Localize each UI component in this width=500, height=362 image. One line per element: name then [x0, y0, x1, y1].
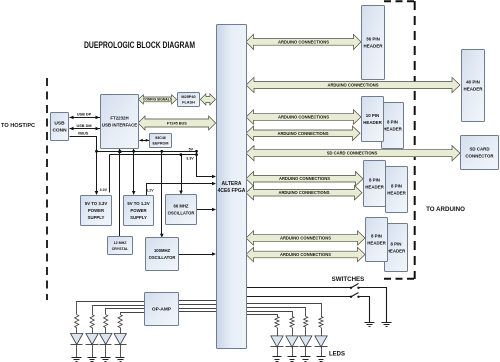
svg-text:USB INTERFACE: USB INTERFACE	[102, 123, 137, 128]
svg-text:66 MHZ: 66 MHZ	[174, 204, 189, 209]
svg-text:HEADER: HEADER	[387, 249, 406, 254]
svg-text:TO HOST/PC: TO HOST/PC	[1, 123, 35, 129]
svg-text:VBUS: VBUS	[78, 131, 89, 135]
svg-text:POWER: POWER	[130, 208, 147, 213]
svg-text:8 PIN: 8 PIN	[391, 184, 402, 189]
svg-text:4CE6 FPGA: 4CE6 FPGA	[218, 188, 246, 194]
svg-text:8 PIN: 8 PIN	[391, 242, 402, 247]
svg-text:OSCILLATOR: OSCILLATOR	[168, 211, 195, 216]
svg-text:HEADER: HEADER	[387, 191, 406, 196]
svg-text:5V: 5V	[189, 148, 194, 152]
svg-text:3.3V: 3.3V	[100, 188, 108, 192]
svg-text:ARDUINO CONNECTIONS: ARDUINO CONNECTIONS	[278, 39, 329, 44]
svg-text:100MHZ: 100MHZ	[154, 248, 170, 253]
svg-text:EEPROM: EEPROM	[153, 142, 169, 146]
svg-text:DUEPROLOGIC BLOCK DIAGRAM: DUEPROLOGIC BLOCK DIAGRAM	[84, 40, 195, 50]
svg-text:OSCILLATOR: OSCILLATOR	[149, 255, 176, 260]
svg-text:HEADER: HEADER	[383, 127, 402, 132]
svg-text:SD CARD CONNECTIONS: SD CARD CONNECTIONS	[327, 151, 378, 156]
svg-text:93C46: 93C46	[155, 136, 166, 140]
svg-text:SUPPLY: SUPPLY	[88, 215, 105, 220]
svg-text:SD CARD: SD CARD	[469, 147, 489, 152]
svg-text:10 PIN: 10 PIN	[366, 113, 379, 118]
svg-text:POWER: POWER	[88, 208, 105, 213]
svg-text:LEDS: LEDS	[329, 352, 345, 358]
svg-text:3.3V: 3.3V	[186, 157, 194, 161]
svg-text:8 PIN: 8 PIN	[371, 234, 382, 239]
svg-text:USB DP: USB DP	[77, 113, 92, 117]
svg-text:12 MHZ: 12 MHZ	[114, 241, 128, 245]
svg-text:SUPPLY: SUPPLY	[130, 215, 147, 220]
svg-text:USB DM: USB DM	[77, 124, 92, 128]
svg-text:8 PIN: 8 PIN	[369, 178, 380, 183]
svg-text:HEADER: HEADER	[363, 120, 382, 125]
svg-text:HEADER: HEADER	[367, 241, 386, 246]
svg-text:FT245 BUS: FT245 BUS	[167, 121, 188, 125]
svg-text:CONFIG SIGNALS: CONFIG SIGNALS	[143, 98, 173, 102]
svg-text:5V TO 1.2V: 5V TO 1.2V	[127, 201, 150, 206]
svg-text:36 PIN: 36 PIN	[366, 37, 380, 42]
svg-text:ARDUINO CONNECTIONS: ARDUINO CONNECTIONS	[278, 115, 329, 120]
svg-text:8 PIN: 8 PIN	[387, 120, 398, 125]
svg-text:ALTERA: ALTERA	[222, 181, 242, 187]
svg-text:USB: USB	[54, 121, 65, 127]
svg-text:FLASH: FLASH	[182, 101, 195, 105]
svg-text:ARDUINO CONNECTIONS: ARDUINO CONNECTIONS	[277, 131, 328, 136]
svg-text:40 PIN: 40 PIN	[466, 80, 480, 85]
svg-text:HEADER: HEADER	[363, 44, 383, 49]
svg-text:ARDUINO CONNECTIONS: ARDUINO CONNECTIONS	[279, 176, 330, 181]
svg-text:HEADER: HEADER	[365, 185, 384, 190]
svg-text:ARDUINO CONNECTIONS: ARDUINO CONNECTIONS	[280, 252, 331, 257]
svg-text:CRYSTAL: CRYSTAL	[112, 247, 129, 251]
svg-text:CONN: CONN	[52, 128, 67, 134]
svg-text:CONNECTOR: CONNECTOR	[465, 154, 494, 159]
svg-text:5V TO 3.3V: 5V TO 3.3V	[85, 201, 108, 206]
svg-text:ARDUINO CONNECTIONS: ARDUINO CONNECTIONS	[280, 236, 331, 241]
svg-text:OP-AMP: OP-AMP	[152, 307, 172, 313]
svg-text:TO ARDUINO: TO ARDUINO	[426, 206, 465, 213]
svg-text:HEADER: HEADER	[463, 87, 483, 92]
svg-text:ARDUINO CONNECTIONS: ARDUINO CONNECTIONS	[327, 83, 378, 88]
svg-text:1.2V: 1.2V	[146, 189, 154, 193]
svg-text:M25P40: M25P40	[181, 95, 195, 99]
svg-text:ARDUINO CONNECTIONS: ARDUINO CONNECTIONS	[278, 190, 329, 195]
svg-text:FT2232H: FT2232H	[110, 116, 128, 121]
svg-text:SWITCHES: SWITCHES	[332, 276, 365, 283]
